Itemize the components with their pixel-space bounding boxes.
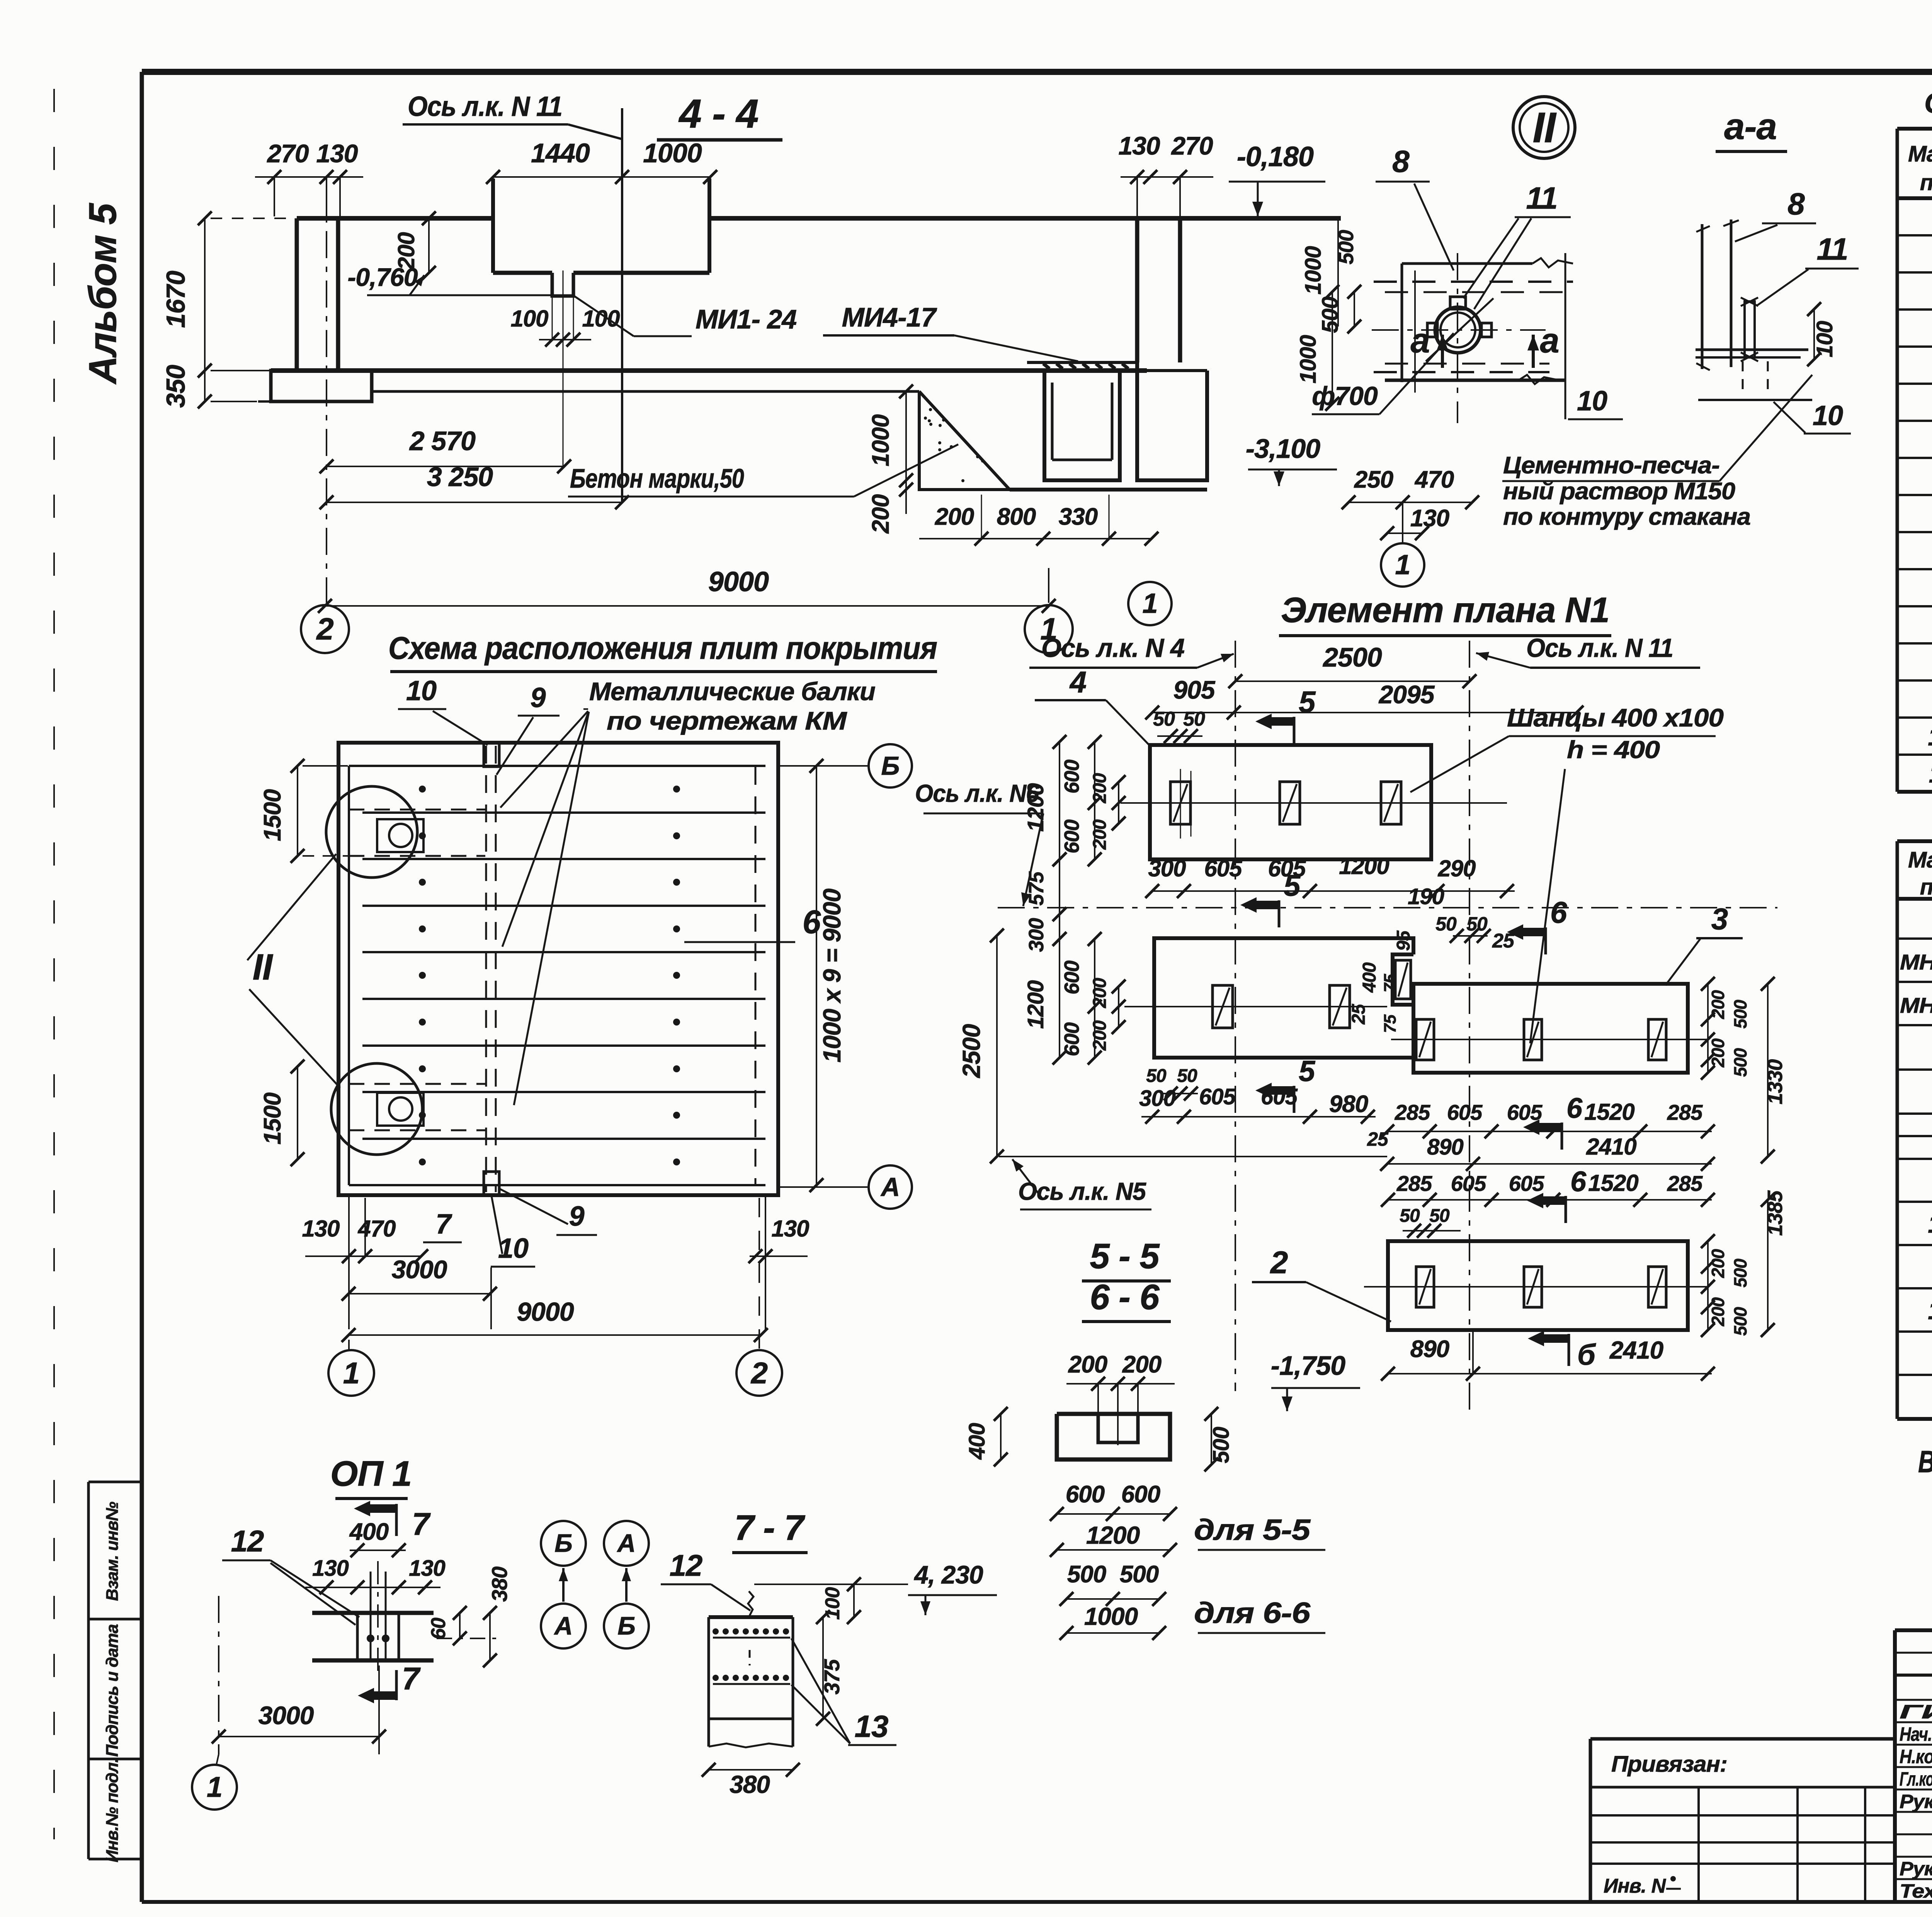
axis circle A plan — [780, 1186, 867, 1188]
flag 6 top right — [1544, 927, 1547, 954]
rect 3 foundation plate — [1413, 984, 1688, 1073]
axis N4 vertical dashdot — [1235, 641, 1236, 1391]
privyazan table — [1590, 1737, 1895, 1741]
svg-text:по контуру стакана: по контуру стакана — [1503, 503, 1750, 530]
svg-text:4: 4 — [1069, 665, 1087, 699]
svg-text:Н.контр.: Н.контр. — [1900, 1746, 1932, 1767]
svg-text:2: 2 — [316, 612, 333, 646]
svg-text:1330: 1330 — [1764, 1059, 1787, 1104]
svg-text:7: 7 — [412, 1507, 431, 1542]
circle 1 OP1 — [192, 1765, 237, 1810]
table 1 grid — [1897, 127, 1932, 131]
svg-text:470: 470 — [357, 1216, 396, 1242]
svg-text:Элемент плана N1: Элемент плана N1 — [1281, 590, 1609, 630]
svg-text:2500: 2500 — [957, 1024, 985, 1078]
beams leaders — [500, 711, 588, 808]
beam pocket box — [491, 179, 495, 273]
plan dim 1000x9 — [816, 766, 817, 1185]
svg-text:1200: 1200 — [1339, 853, 1389, 879]
svg-text:100: 100 — [582, 306, 620, 332]
svg-text:1000: 1000 — [1296, 335, 1321, 384]
svg-text:13: 13 — [855, 1709, 888, 1744]
plan inner lines — [349, 765, 765, 767]
svg-text:400: 400 — [1359, 962, 1380, 993]
axis circle B plan — [780, 765, 867, 767]
left margin stamp boxes — [88, 1481, 140, 1483]
svg-text:380: 380 — [487, 1567, 512, 1602]
OP1 pad drawing — [312, 1611, 434, 1615]
svg-text:50: 50 — [1435, 913, 1457, 935]
svg-text:6: 6 — [1550, 895, 1567, 929]
dim 2500 element top — [1235, 680, 1469, 682]
svg-text:Ось л.к. N 4: Ось л.к. N 4 — [1041, 633, 1184, 663]
stakan plan circles — [1435, 307, 1481, 353]
stakan cup section — [1044, 370, 1120, 480]
svg-text:1500: 1500 — [259, 1093, 286, 1145]
svg-text:10: 10 — [1577, 386, 1607, 417]
svg-text:200: 200 — [935, 503, 974, 530]
dim 1670 350 left — [204, 218, 206, 371]
dim 2500 element left — [996, 936, 998, 1157]
left footing — [271, 371, 372, 401]
svg-text:10: 10 — [1813, 400, 1843, 431]
rect3 right dims — [1707, 984, 1709, 1073]
svg-text:200: 200 — [1708, 1038, 1728, 1068]
svg-text:290: 290 — [1437, 856, 1476, 881]
svg-text:А: А — [880, 1172, 900, 1202]
centerlines detail II — [1372, 329, 1546, 331]
svg-text:600: 600 — [1121, 1481, 1160, 1508]
svg-text:100: 100 — [510, 306, 548, 332]
plan slab dots — [419, 786, 426, 793]
svg-text:605: 605 — [1451, 1171, 1486, 1196]
svg-text:3000: 3000 — [392, 1255, 447, 1284]
svg-text:Б: Б — [881, 751, 899, 781]
flag 7 top OP1 — [395, 1504, 398, 1536]
grid circles A B — [541, 1521, 586, 1566]
rect2 right dims — [1707, 1241, 1709, 1330]
svg-text:3 250: 3 250 — [427, 462, 493, 492]
svg-text:Взам. инв№: Взам. инв№ — [103, 1502, 122, 1601]
svg-text:1200: 1200 — [1023, 980, 1048, 1029]
svg-text:600: 600 — [1060, 759, 1083, 793]
plan dim 3000 — [349, 1293, 490, 1294]
svg-text:200: 200 — [1122, 1351, 1162, 1378]
svg-text:Подпись и дата: Подпись и дата — [103, 1624, 122, 1757]
svg-text:Б: Б — [554, 1529, 572, 1557]
svg-text:Ведомость расхода стали смотри: Ведомость расхода стали смотрите на лист… — [1918, 1444, 1932, 1479]
axis line N11 vertical — [621, 108, 623, 502]
svg-text:12: 12 — [1928, 1209, 1932, 1238]
svg-text:ОП 1: ОП 1 — [330, 1454, 412, 1493]
rect 5 tab slot — [1395, 960, 1411, 999]
svg-text:МИ1- 24: МИ1- 24 — [696, 304, 796, 334]
dim 100 a-a — [1813, 309, 1815, 359]
svg-text:2410: 2410 — [1586, 1134, 1636, 1160]
svg-text:130: 130 — [312, 1556, 349, 1581]
svg-text:200: 200 — [1068, 1351, 1107, 1378]
svg-text:130: 130 — [409, 1556, 446, 1581]
svg-text:Марка: Марка — [1908, 141, 1932, 167]
svg-text:890: 890 — [1427, 1135, 1464, 1160]
svg-text:10: 10 — [406, 675, 437, 706]
svg-text:330: 330 — [1059, 503, 1098, 530]
right lower block — [1137, 362, 1207, 480]
dim 200 beam — [428, 218, 430, 273]
svg-text:Инв.№ подл.: Инв.№ подл. — [103, 1758, 122, 1862]
rect4 left dims — [1059, 742, 1060, 859]
svg-text:8: 8 — [1787, 187, 1805, 221]
dim 1000 200 pit left — [905, 391, 907, 480]
svg-text:605: 605 — [1509, 1171, 1544, 1196]
svg-text:-1,750: -1,750 — [1271, 1351, 1346, 1381]
svg-text:б: б — [1577, 1339, 1596, 1371]
svg-text:1200: 1200 — [1086, 1521, 1140, 1549]
rect 5 foundation plate — [1154, 938, 1413, 1058]
svg-text:для 6-6: для 6-6 — [1194, 1597, 1311, 1630]
svg-text:1670: 1670 — [161, 270, 190, 328]
svg-text:75: 75 — [1381, 974, 1400, 992]
svg-text:130: 130 — [771, 1216, 809, 1242]
svg-text:300: 300 — [1139, 1086, 1176, 1111]
svg-text:1520: 1520 — [1584, 1099, 1634, 1125]
svg-text:250: 250 — [1354, 466, 1393, 493]
svg-text:9: 9 — [569, 1201, 584, 1232]
svg-text:200: 200 — [1708, 1249, 1728, 1278]
svg-text:5: 5 — [1284, 868, 1301, 902]
dim 3250 — [327, 502, 622, 503]
svg-text:1385: 1385 — [1764, 1190, 1787, 1236]
embed MI1-24 stub — [552, 273, 573, 296]
svg-text:Металлические балки: Металлические балки — [589, 677, 876, 706]
dim 9000 sec44 — [325, 605, 1049, 607]
svg-text:500: 500 — [1730, 1259, 1750, 1288]
svg-text:285: 285 — [1396, 1171, 1432, 1196]
svg-text:1: 1 — [207, 1771, 222, 1803]
rect 4 foundation plate — [1150, 745, 1431, 859]
svg-text:1000: 1000 — [1301, 246, 1326, 295]
dim 130 270 right — [1121, 176, 1213, 178]
svg-text:200: 200 — [1708, 1297, 1728, 1327]
svg-text:300: 300 — [1025, 918, 1048, 952]
dim 270 130 top left — [255, 176, 363, 178]
svg-text:II: II — [253, 947, 274, 988]
svg-text:50: 50 — [1429, 1206, 1450, 1226]
svg-text:270: 270 — [1170, 131, 1213, 160]
svg-text:500: 500 — [1730, 1307, 1750, 1336]
plan stakan strip top — [349, 809, 485, 811]
dims 250 470 130 bubble1 — [1349, 502, 1472, 503]
svg-text:9: 9 — [530, 682, 546, 713]
svg-text:11: 11 — [1929, 759, 1932, 788]
svg-text:Цементно-песча-: Цементно-песча- — [1503, 452, 1719, 479]
svg-text:1500: 1500 — [259, 789, 286, 841]
axis dashdot line 2 — [326, 182, 327, 603]
plan detail circle top — [326, 786, 417, 878]
svg-text:А: А — [617, 1529, 636, 1557]
break marks a-a — [1696, 226, 1710, 232]
svg-text:500: 500 — [1120, 1561, 1159, 1588]
svg-text:500: 500 — [1318, 296, 1343, 333]
title block outer — [1895, 1628, 1932, 1632]
svg-text:13: 13 — [1928, 1296, 1932, 1325]
svg-text:а: а — [1410, 321, 1429, 360]
svg-text:375: 375 — [820, 1659, 844, 1694]
svg-text:5 - 5: 5 - 5 — [1090, 1237, 1160, 1276]
dim 60 380 OP1 — [459, 1613, 461, 1638]
dim 200 800 330 pit bottom — [919, 538, 1151, 539]
svg-text:190: 190 — [1408, 884, 1444, 909]
svg-text:5: 5 — [1299, 685, 1316, 719]
svg-text:МН1-24: МН1-24 — [1900, 950, 1932, 974]
flag 5 top — [1293, 717, 1296, 744]
svg-text:1: 1 — [1142, 588, 1157, 619]
detail II plan drawing — [1402, 262, 1532, 265]
svg-text:500: 500 — [1334, 230, 1358, 264]
svg-text:6: 6 — [1566, 1092, 1583, 1124]
plan dim 1500 bottom — [297, 1067, 298, 1159]
svg-text:Ось л.к. N 11: Ось л.к. N 11 — [1526, 633, 1673, 663]
rect 2 foundation plate — [1388, 1241, 1688, 1330]
svg-text:1: 1 — [1395, 549, 1410, 580]
stakan lugs — [1450, 297, 1466, 309]
svg-text:50: 50 — [1153, 708, 1175, 730]
dim 1440 1000 — [493, 176, 710, 178]
axis circle 2 — [301, 605, 349, 653]
svg-text:11: 11 — [1526, 181, 1557, 215]
svg-text:100: 100 — [1812, 321, 1837, 357]
sec56 dim 400 500 — [1000, 1414, 1002, 1459]
svg-text:4, 230: 4, 230 — [913, 1560, 983, 1589]
left chain 575 300 — [1059, 859, 1060, 939]
svg-text:3000: 3000 — [259, 1701, 314, 1730]
svg-text:200: 200 — [1090, 978, 1110, 1008]
section a-a arrows — [1441, 335, 1444, 368]
svg-text:Гл.констр.: Гл.констр. — [1900, 1768, 1932, 1790]
a-a section drawing — [1701, 224, 1704, 369]
svg-text:200: 200 — [1090, 773, 1110, 803]
svg-text:500: 500 — [1067, 1561, 1106, 1588]
svg-text:600: 600 — [1060, 960, 1083, 994]
axis N11 vertical dashdot — [1469, 641, 1470, 1410]
dim 905 2095 — [1152, 712, 1580, 713]
svg-text:380: 380 — [730, 1771, 770, 1798]
svg-text:Инв. N: Инв. N — [1604, 1875, 1666, 1897]
svg-text:Марка: Марка — [1908, 847, 1932, 873]
svg-text:5: 5 — [1299, 1055, 1316, 1088]
rect 2 slots — [1416, 1267, 1434, 1307]
svg-text:Альбом 5: Альбом 5 — [81, 203, 124, 385]
svg-text:2 570: 2 570 — [409, 426, 476, 456]
svg-text:Бетон марки,50: Бетон марки,50 — [570, 463, 744, 493]
plan dim 9000 — [349, 1334, 761, 1336]
plan detail circle bottom — [331, 1063, 422, 1155]
right wall columns — [1135, 218, 1139, 362]
svg-text:285: 285 — [1667, 1100, 1703, 1124]
svg-text:130: 130 — [302, 1216, 340, 1242]
svg-text:ф700: ф700 — [1312, 381, 1378, 411]
page border frame — [142, 69, 1932, 75]
svg-text:7 - 7: 7 - 7 — [734, 1508, 805, 1548]
svg-text:400: 400 — [349, 1519, 389, 1545]
flag 7 bottom OP1 — [395, 1670, 398, 1700]
sec77 anchor zigzag — [748, 1591, 753, 1617]
svg-text:500: 500 — [1730, 1000, 1750, 1029]
svg-text:270: 270 — [266, 139, 309, 168]
svg-text:7: 7 — [435, 1209, 452, 1240]
svg-text:ГИП: ГИП — [1900, 1701, 1932, 1723]
svg-text:а-а: а-а — [1724, 106, 1777, 147]
svg-text:75: 75 — [1381, 1014, 1400, 1033]
svg-text:МН4-17: МН4-17 — [1900, 993, 1932, 1017]
svg-text:60: 60 — [427, 1618, 450, 1640]
svg-text:1000: 1000 — [1084, 1602, 1138, 1630]
plan axis circles 1 2 — [348, 1340, 350, 1350]
svg-text:9000: 9000 — [517, 1297, 574, 1327]
plan stakan strip bottom — [349, 1083, 485, 1085]
svg-text:Ось л.к. N6: Ось л.к. N6 — [915, 779, 1039, 807]
svg-text:130: 130 — [316, 139, 358, 168]
bottom slab line — [271, 368, 1147, 373]
sec77 bottom break — [709, 1744, 793, 1747]
sec77 drawing — [709, 1615, 793, 1619]
svg-text:1200: 1200 — [1023, 783, 1048, 832]
svg-text:575: 575 — [1025, 871, 1048, 905]
svg-text:Ось л.к. N 11: Ось л.к. N 11 — [408, 91, 562, 122]
svg-text:1000 x 9 = 9000: 1000 x 9 = 9000 — [818, 889, 846, 1063]
svg-text:10: 10 — [1928, 722, 1932, 751]
svg-text:285: 285 — [1395, 1100, 1430, 1124]
svg-text:Спецификация к схеме расположе: Спецификация к схеме расположения констр… — [1924, 87, 1932, 119]
svg-text:2095: 2095 — [1378, 680, 1435, 709]
svg-text:500: 500 — [1730, 1048, 1750, 1077]
svg-text:130: 130 — [1118, 131, 1160, 160]
svg-text:350: 350 — [161, 365, 190, 408]
axis N6 horizontal dashdot — [998, 907, 1777, 908]
concrete wedge triangle — [919, 391, 1010, 490]
svg-text:для 5-5: для 5-5 — [1194, 1514, 1311, 1546]
svg-text:800: 800 — [997, 503, 1036, 530]
svg-text:605: 605 — [1204, 856, 1243, 881]
svg-text:2410: 2410 — [1609, 1336, 1663, 1364]
circle 1 detail II — [1381, 543, 1424, 587]
svg-text:285: 285 — [1667, 1171, 1703, 1196]
svg-text:4 - 4: 4 - 4 — [678, 91, 758, 136]
svg-text:130: 130 — [1410, 505, 1449, 532]
svg-text:1000: 1000 — [643, 138, 702, 168]
svg-text:Рук. гр.: Рук. гр. — [1900, 1858, 1932, 1880]
svg-text:а: а — [1540, 321, 1559, 360]
svg-text:1520: 1520 — [1588, 1170, 1638, 1196]
svg-text:470: 470 — [1414, 466, 1454, 493]
staff table grid — [1895, 1652, 1932, 1654]
svg-text:2: 2 — [750, 1356, 768, 1390]
circle 1 above element plan — [1128, 582, 1172, 625]
svg-text:-0,180: -0,180 — [1237, 141, 1314, 172]
svg-text:10: 10 — [498, 1233, 529, 1264]
dim 100 sec77 — [853, 1584, 855, 1617]
svg-text:1: 1 — [343, 1356, 359, 1390]
svg-text:поз.: поз. — [1920, 874, 1932, 900]
svg-text:200: 200 — [1708, 990, 1728, 1019]
svg-text:Рук. гр.: Рук. гр. — [1900, 1791, 1932, 1812]
flag 5 mid — [1278, 900, 1281, 927]
svg-text:2: 2 — [1270, 1245, 1288, 1280]
svg-text:Шанцы 400 х100: Шанцы 400 х100 — [1507, 703, 1724, 732]
left wall verticals — [295, 218, 299, 371]
svg-text:МИ4-17: МИ4-17 — [842, 302, 937, 332]
svg-text:605: 605 — [1199, 1084, 1236, 1109]
rect4 bottom dims — [1152, 890, 1515, 892]
scan edge dashed line left — [53, 89, 55, 1839]
MI4-17 top plate — [1027, 361, 1136, 364]
svg-text:II: II — [1532, 104, 1557, 151]
svg-text:605: 605 — [1447, 1100, 1483, 1124]
svg-text:h = 400: h = 400 — [1567, 736, 1660, 764]
svg-text:поз.: поз. — [1920, 170, 1932, 195]
svg-text:600: 600 — [1060, 819, 1083, 853]
dim 500 1000 detail II — [1354, 292, 1355, 327]
plan dashed vertical strips — [485, 746, 487, 1192]
svg-text:600: 600 — [1060, 1022, 1083, 1056]
svg-text:1000: 1000 — [867, 415, 894, 466]
svg-text:50: 50 — [1400, 1206, 1420, 1226]
plan dim 1500 top — [297, 766, 298, 856]
svg-text:по чертежам КМ: по чертежам КМ — [607, 706, 847, 735]
svg-text:980: 980 — [1329, 1091, 1368, 1118]
detail II dashed plate lines — [1374, 281, 1573, 283]
rect 5 slots — [1213, 985, 1233, 1028]
svg-text:8: 8 — [1392, 144, 1410, 179]
svg-text:25: 25 — [1349, 1004, 1369, 1025]
plan outer rect — [338, 743, 778, 1195]
svg-text:3: 3 — [1711, 902, 1728, 936]
svg-text:12: 12 — [231, 1524, 264, 1558]
svg-text:1440: 1440 — [531, 138, 590, 168]
svg-text:Техник: Техник — [1900, 1880, 1932, 1902]
rect 3 slots — [1416, 1019, 1434, 1060]
svg-text:Привязан:: Привязан: — [1611, 1752, 1727, 1777]
svg-text:200: 200 — [1090, 1020, 1110, 1051]
svg-text:А: А — [554, 1611, 573, 1640]
svg-text:9000: 9000 — [708, 566, 769, 597]
svg-text:12: 12 — [670, 1548, 702, 1582]
svg-text:50: 50 — [1183, 708, 1205, 730]
svg-text:905: 905 — [1173, 675, 1215, 704]
svg-text:11: 11 — [1816, 232, 1848, 266]
svg-text:95: 95 — [1393, 930, 1414, 951]
svg-text:Нач. отд.: Нач. отд. — [1900, 1723, 1932, 1745]
sec77 rebar rows — [713, 1628, 719, 1635]
svg-text:Схема расположения плит покрыт: Схема расположения плит покрытия — [388, 631, 937, 666]
sec56 block drawing — [1057, 1414, 1170, 1459]
dim 2570 — [327, 466, 564, 467]
pit bottom — [1010, 488, 1207, 492]
plan small beam marks — [484, 743, 499, 767]
svg-text:300: 300 — [1148, 856, 1186, 881]
svg-text:-0,760: -0,760 — [347, 263, 418, 291]
svg-text:400: 400 — [964, 1423, 990, 1460]
svg-text:50: 50 — [1177, 1066, 1197, 1086]
svg-text:200: 200 — [867, 494, 894, 534]
svg-text:2500: 2500 — [1322, 642, 1382, 672]
rect5 left dims — [1059, 939, 1060, 1058]
table 2 grid — [1897, 839, 1932, 843]
svg-text:6: 6 — [1570, 1165, 1587, 1197]
main floor top line — [297, 216, 493, 221]
svg-text:600: 600 — [1066, 1481, 1105, 1508]
detail II bubble — [1513, 97, 1575, 158]
